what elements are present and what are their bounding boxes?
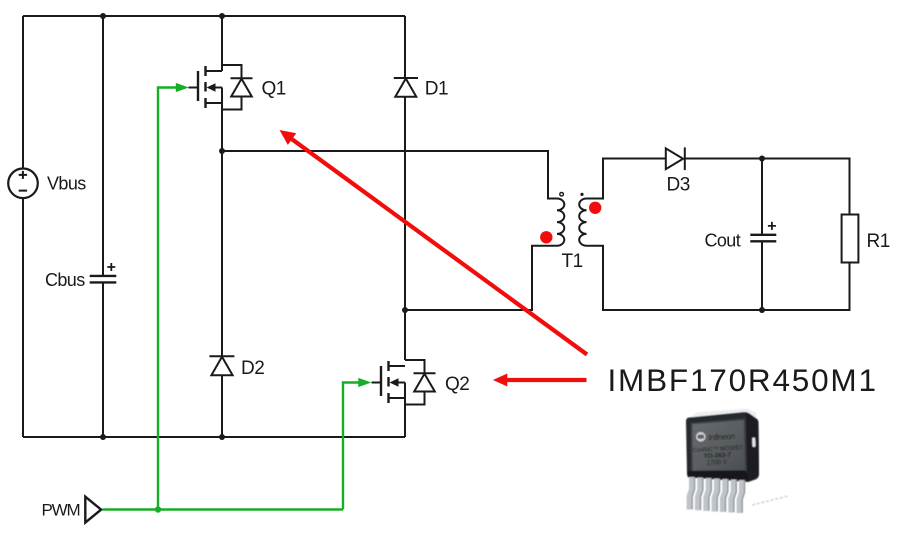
svg-text:Vbus: Vbus (47, 174, 86, 194)
svg-text:1700 V: 1700 V (707, 459, 728, 467)
Q1 gate lead (189, 87, 199, 89)
wire Cbus branch (102, 16, 104, 437)
green arrowhead into Q2 gate (358, 378, 371, 387)
wire mid bus node A to transformer (222, 151, 557, 199)
Q1 source lead (206, 102, 223, 104)
photo reflection text on table (752, 496, 789, 505)
voltage source Vbus (8, 169, 38, 199)
photo lead 1 (690, 477, 742, 513)
svg-text:D2: D2 (241, 358, 264, 379)
red annotation arrow to Q2 (493, 374, 587, 387)
photo lead 5 (723, 479, 725, 512)
Q2 body diode triangle (414, 374, 435, 392)
resistor R1 (842, 215, 859, 263)
plus sign of Cbus (107, 263, 115, 271)
Q2 body diode cathode bar (414, 372, 436, 374)
photo lead 6 (731, 480, 733, 513)
photo right side face (746, 413, 759, 481)
wire D1 branch (404, 16, 406, 360)
svg-text:Cbus: Cbus (45, 270, 85, 290)
photo top highlight (687, 409, 757, 422)
svg-text:D1: D1 (425, 78, 448, 99)
svg-text:T1: T1 (562, 251, 583, 272)
junction node A mid bus (219, 148, 225, 154)
wire bottom rail (23, 436, 405, 438)
junction bottom rail D2 (219, 434, 225, 440)
Q2 bulk arrow (394, 382, 405, 384)
wire D3 cathode to R1 (685, 159, 850, 215)
Q2 channel segments (387, 361, 389, 403)
photo front face (692, 419, 746, 471)
svg-text:R1: R1 (867, 231, 890, 252)
svg-text:IMBF170R450M1: IMBF170R450M1 (608, 362, 878, 398)
svg-text:Infineon: Infineon (708, 432, 736, 442)
diode D1 (394, 78, 418, 97)
Q2 drain lead (389, 365, 406, 367)
svg-text:Cout: Cout (705, 231, 741, 251)
wire Q1 source to mid node (221, 88, 223, 152)
capacitor Cbus (90, 276, 117, 283)
capacitor Cout (750, 235, 776, 242)
green wire branch to Q2 gate (343, 383, 359, 510)
buffer PWM (85, 497, 101, 523)
red annotation arrow to Q1 (280, 130, 588, 355)
junction top rail Cbus (100, 13, 106, 19)
photo Infineon logo ring (696, 432, 705, 441)
wire top rail (23, 15, 405, 17)
svg-text:Q1: Q1 (262, 78, 286, 99)
svg-text:Q2: Q2 (445, 374, 469, 395)
transformer T1 primary winding (557, 199, 564, 246)
green wire branch to Q1 gate (158, 88, 177, 510)
photo lead 2 (698, 478, 700, 511)
wire left rail (22, 16, 24, 437)
green gate wire trunk from PWM (103, 88, 360, 510)
T1 secondary red marker dot (589, 202, 601, 214)
photo lead 7 (740, 480, 742, 513)
T1 primary polarity dot (560, 192, 564, 196)
Q1 gate bar (197, 71, 199, 101)
photo body silhouette (686, 412, 759, 482)
wire primary bottom to node B (405, 246, 557, 310)
diode D3 (666, 147, 685, 170)
transistor Q2 (372, 360, 436, 405)
junction top rail Q1 drain (219, 13, 225, 19)
Q2 body diode loop (405, 360, 425, 405)
Q1 bulk arrow (211, 87, 222, 89)
junction node B primary bottom (402, 307, 408, 313)
Q1 body diode loop (222, 65, 242, 110)
Q1 body diode triangle (231, 79, 252, 97)
photo right side notch (752, 437, 756, 447)
green junction at PWM line (155, 506, 161, 512)
diode D2 (209, 356, 234, 375)
wire Q1 drain (221, 16, 223, 71)
Q1 body diode cathode bar (231, 77, 253, 79)
svg-text:PWM: PWM (42, 500, 80, 519)
photo lead 3 (706, 478, 708, 511)
wire Cout branch (761, 159, 763, 311)
wire Q2 source (404, 383, 406, 438)
photo bottom dark strip (687, 471, 750, 482)
plus sign of Cout (768, 222, 776, 230)
Q2 gate lead (372, 382, 382, 384)
Q2 gate bar (380, 366, 382, 396)
T1 secondary polarity dot (580, 193, 583, 196)
junction Cout bottom (759, 307, 765, 313)
junction bottom rail Cbus (100, 434, 106, 440)
wire secondary top to D3 (587, 159, 666, 199)
transformer T1 secondary winding (579, 199, 586, 246)
Q1 channel segments (204, 66, 206, 108)
junction Cout top (759, 156, 765, 162)
photo lead 4 (715, 479, 717, 512)
svg-text:D3: D3 (667, 175, 690, 196)
wire D2 branch (221, 151, 223, 437)
transistor Q1 (189, 65, 253, 110)
wire R1 bottom (587, 246, 850, 310)
T1 primary red marker dot (540, 231, 552, 243)
Q1 drain lead (206, 70, 223, 72)
Q2 source lead (389, 397, 406, 399)
green arrowhead into Q1 gate (176, 83, 189, 92)
photo lead shading edges (692, 477, 744, 513)
